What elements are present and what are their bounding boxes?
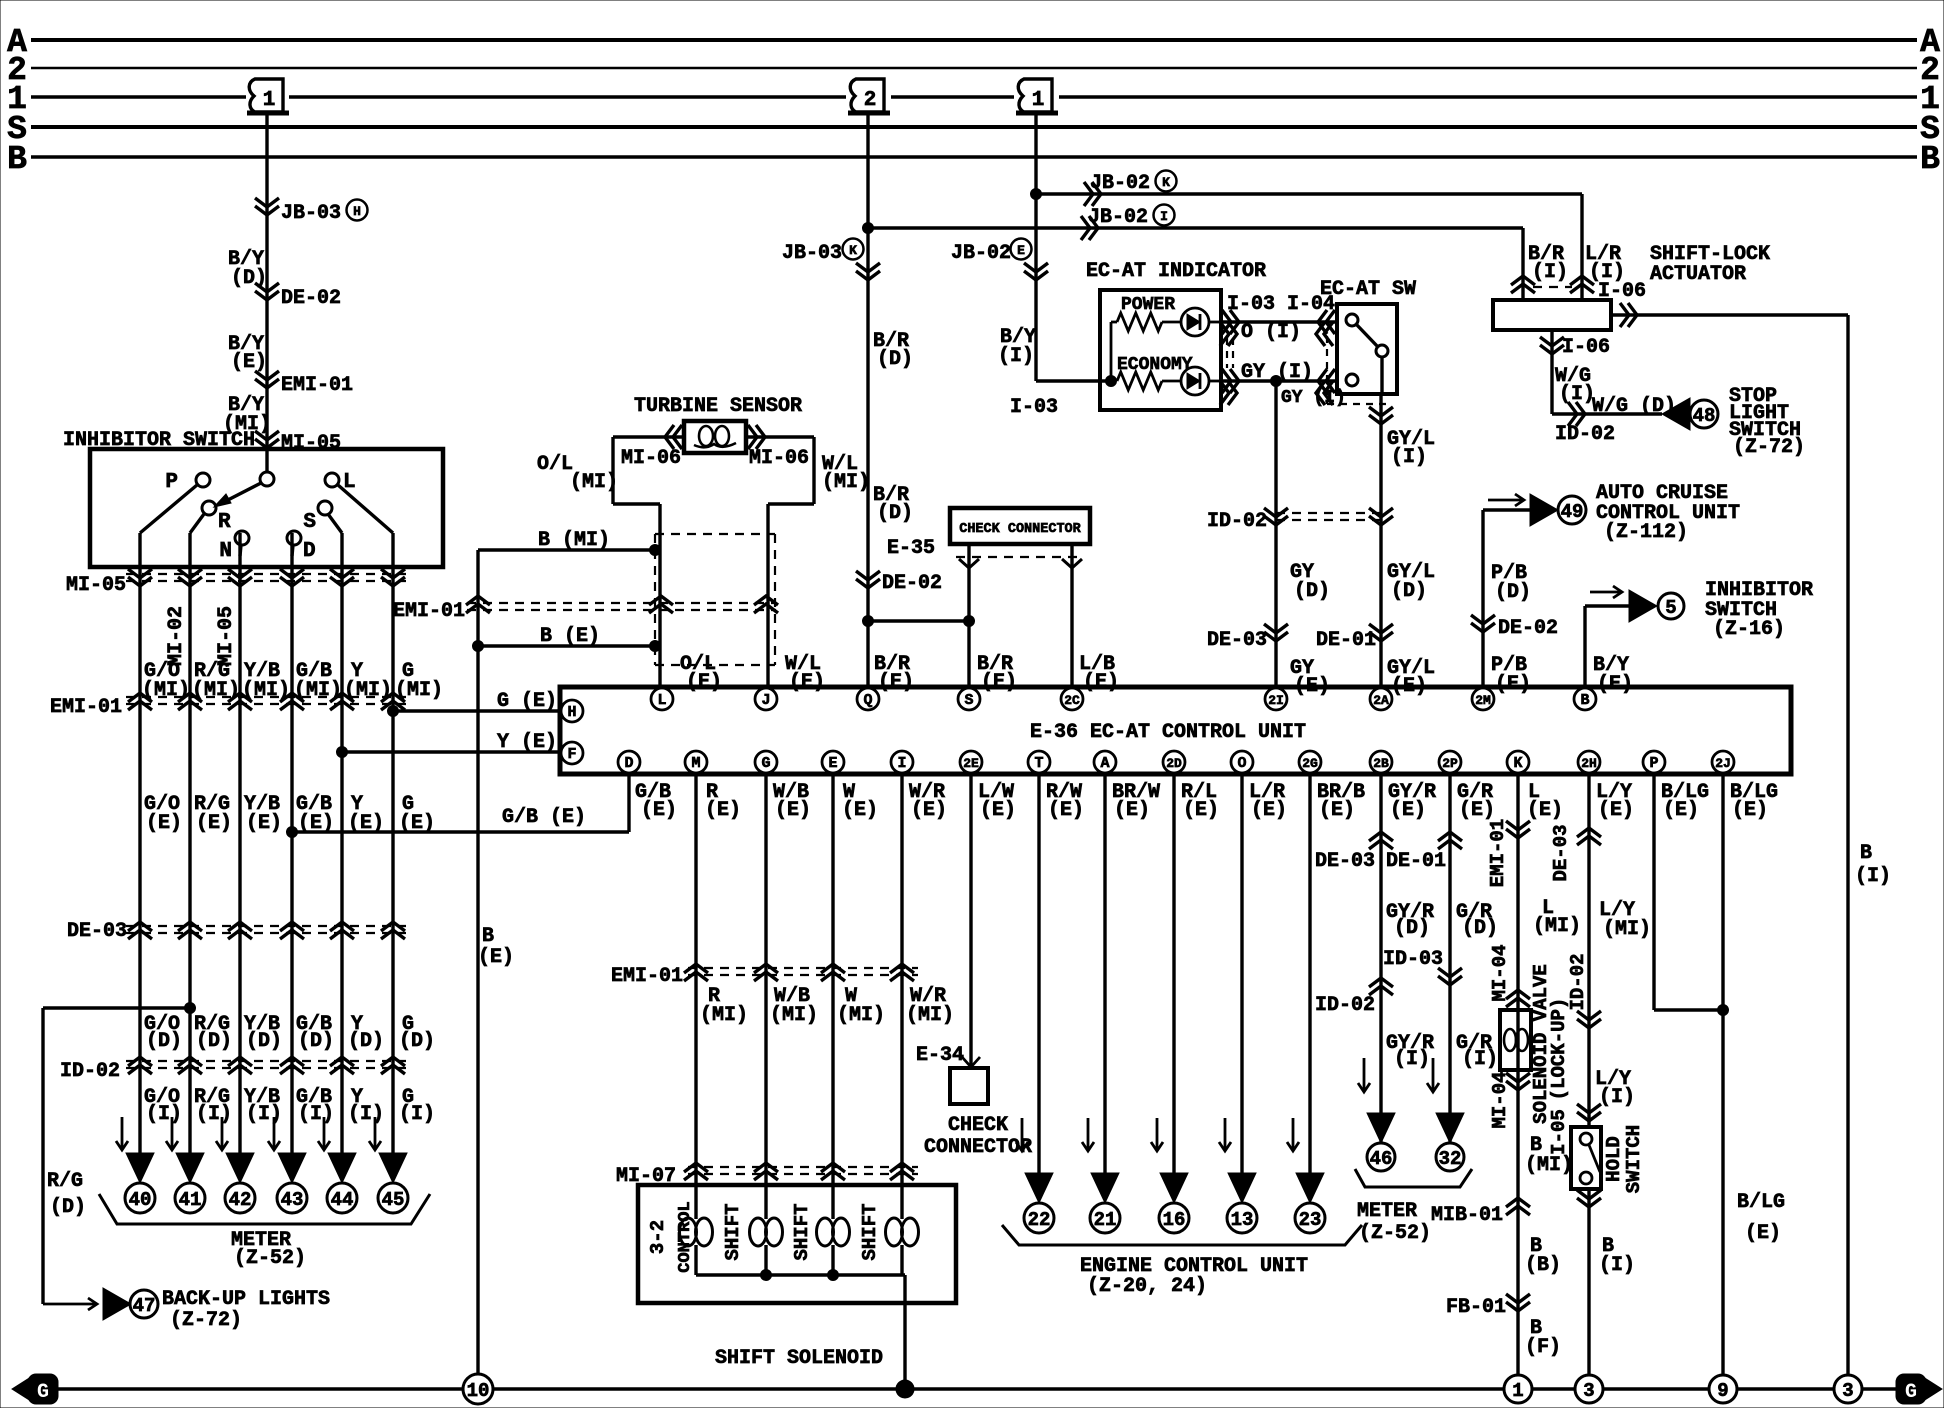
svg-text:(Z-72): (Z-72) — [170, 1309, 242, 1332]
svg-text:(E): (E) — [641, 799, 677, 822]
svg-text:L: L — [657, 692, 666, 709]
svg-text:JB-03: JB-03 — [782, 242, 842, 265]
svg-text:49: 49 — [1561, 501, 1584, 523]
svg-text:MI-04: MI-04 — [1489, 944, 1511, 1001]
svg-text:(D): (D) — [399, 1030, 435, 1053]
svg-text:(E): (E) — [1598, 799, 1634, 822]
svg-text:42: 42 — [229, 1189, 252, 1211]
svg-text:(E): (E) — [1319, 799, 1355, 822]
svg-text:(D): (D) — [877, 348, 913, 371]
svg-text:BACK-UP LIGHTS: BACK-UP LIGHTS — [162, 1288, 330, 1311]
svg-text:EC-AT INDICATOR: EC-AT INDICATOR — [1086, 260, 1266, 283]
svg-text:G: G — [761, 755, 770, 772]
svg-text:(E): (E) — [1732, 799, 1768, 822]
svg-text:48: 48 — [1693, 405, 1716, 427]
svg-text:(D): (D) — [1495, 581, 1531, 604]
svg-text:(E): (E) — [1663, 799, 1699, 822]
svg-text:2I: 2I — [1268, 693, 1284, 708]
svg-text:(B): (B) — [1525, 1254, 1561, 1277]
svg-text:2B: 2B — [1373, 756, 1389, 771]
svg-text:23: 23 — [1299, 1209, 1322, 1231]
svg-text:(E): (E) — [246, 812, 282, 835]
svg-text:41: 41 — [179, 1189, 202, 1211]
svg-text:(E): (E) — [1745, 1222, 1781, 1245]
svg-text:(I): (I) — [1599, 1086, 1635, 1109]
svg-text:(I): (I) — [998, 345, 1034, 368]
svg-text:JB-02: JB-02 — [1088, 206, 1148, 229]
svg-text:45: 45 — [382, 1189, 405, 1211]
svg-text:(I): (I) — [1391, 446, 1427, 469]
svg-text:D: D — [624, 755, 633, 772]
svg-text:44: 44 — [331, 1189, 354, 1211]
svg-text:(D): (D) — [298, 1030, 334, 1053]
svg-text:G/B (E): G/B (E) — [502, 806, 586, 829]
svg-text:(I): (I) — [1599, 1254, 1635, 1277]
svg-text:16: 16 — [1163, 1209, 1186, 1231]
svg-text:SWITCH: SWITCH — [1623, 1125, 1645, 1193]
svg-text:(MI): (MI) — [1525, 1154, 1573, 1177]
svg-text:1: 1 — [1512, 1380, 1523, 1402]
svg-text:B: B — [482, 925, 494, 948]
svg-text:(MI): (MI) — [700, 1004, 748, 1027]
svg-text:(E): (E) — [1459, 799, 1495, 822]
svg-text:E: E — [1017, 243, 1025, 258]
svg-text:(I): (I) — [298, 1103, 334, 1126]
svg-text:(I): (I) — [146, 1103, 182, 1126]
svg-text:S: S — [303, 511, 316, 534]
svg-text:MIB-01: MIB-01 — [1431, 1204, 1503, 1227]
svg-text:(E): (E) — [789, 671, 825, 694]
svg-text:E-35: E-35 — [887, 537, 935, 560]
svg-text:(D): (D) — [146, 1030, 182, 1053]
svg-text:B: B — [1580, 692, 1589, 709]
svg-text:I-03 I-04: I-03 I-04 — [1227, 293, 1335, 316]
svg-text:ID-03: ID-03 — [1383, 948, 1443, 971]
svg-text:(E): (E) — [1083, 671, 1119, 694]
svg-text:EMI-01: EMI-01 — [281, 374, 353, 397]
svg-text:SHIFT SOLENOID: SHIFT SOLENOID — [715, 1347, 883, 1370]
svg-text:(MI): (MI) — [906, 1004, 954, 1027]
svg-text:O/L: O/L — [537, 453, 573, 476]
svg-text:3: 3 — [1842, 1380, 1853, 1402]
svg-text:EMI-01: EMI-01 — [1487, 819, 1509, 887]
svg-text:(D): (D) — [50, 1196, 86, 1219]
svg-text:DE-02: DE-02 — [882, 572, 942, 595]
svg-text:I: I — [1160, 209, 1168, 224]
svg-text:(E): (E) — [1114, 799, 1150, 822]
svg-text:J: J — [761, 692, 770, 709]
svg-text:HOLD: HOLD — [1603, 1136, 1625, 1182]
svg-text:ECONOMY: ECONOMY — [1117, 355, 1193, 375]
svg-text:DE-02: DE-02 — [281, 287, 341, 310]
svg-text:EC-AT SW: EC-AT SW — [1320, 278, 1416, 301]
svg-text:(E): (E) — [1390, 799, 1426, 822]
svg-text:40: 40 — [129, 1189, 152, 1211]
svg-text:(Z-52): (Z-52) — [1359, 1222, 1431, 1245]
svg-text:DE-02: DE-02 — [1498, 617, 1558, 640]
svg-text:I-06: I-06 — [1562, 336, 1610, 359]
svg-text:H: H — [567, 704, 576, 721]
svg-text:ID-02: ID-02 — [1315, 994, 1375, 1017]
svg-text:(D): (D) — [1294, 580, 1330, 603]
svg-text:(LOCK-UP): (LOCK-UP) — [1548, 998, 1570, 1101]
svg-text:(I): (I) — [1855, 865, 1891, 888]
svg-text:47: 47 — [133, 1295, 156, 1317]
svg-text:(E): (E) — [878, 671, 914, 694]
svg-text:9: 9 — [1717, 1380, 1728, 1402]
svg-text:D: D — [303, 540, 316, 563]
svg-text:(E): (E) — [1527, 799, 1563, 822]
svg-text:M: M — [691, 755, 700, 772]
svg-text:(D): (D) — [348, 1030, 384, 1053]
svg-text:G (E): G (E) — [497, 690, 557, 713]
svg-text:E-34: E-34 — [916, 1044, 964, 1067]
svg-text:Q: Q — [863, 692, 872, 709]
svg-text:A: A — [1100, 755, 1109, 772]
svg-text:T: T — [1034, 755, 1043, 772]
svg-text:2D: 2D — [1166, 756, 1182, 771]
svg-text:1: 1 — [263, 89, 276, 112]
svg-text:JB-02: JB-02 — [1090, 172, 1150, 195]
svg-text:5: 5 — [1665, 597, 1676, 619]
svg-text:(MI): (MI) — [822, 471, 870, 494]
svg-text:13: 13 — [1231, 1209, 1254, 1231]
svg-text:46: 46 — [1370, 1148, 1393, 1170]
svg-text:3-2: 3-2 — [647, 1220, 669, 1254]
svg-text:I: I — [897, 755, 906, 772]
svg-text:2P: 2P — [1442, 756, 1458, 771]
svg-text:B (MI): B (MI) — [538, 529, 610, 552]
svg-text:B: B — [1860, 842, 1872, 865]
svg-text:21: 21 — [1094, 1209, 1117, 1231]
svg-text:POWER: POWER — [1121, 295, 1175, 315]
svg-text:(D): (D) — [1394, 917, 1430, 940]
svg-text:(E): (E) — [478, 946, 514, 969]
svg-text:(E): (E) — [842, 799, 878, 822]
svg-text:O: O — [1237, 755, 1246, 772]
svg-text:(Z-52): (Z-52) — [234, 1247, 306, 1270]
svg-text:(F): (F) — [1525, 1336, 1561, 1359]
svg-text:H: H — [353, 204, 361, 219]
svg-text:(MI): (MI) — [570, 471, 618, 494]
svg-text:DE-03: DE-03 — [1207, 629, 1267, 652]
svg-text:(I): (I) — [1462, 1048, 1498, 1071]
svg-text:MI-06: MI-06 — [749, 447, 809, 470]
svg-text:(E): (E) — [1183, 799, 1219, 822]
svg-text:(E): (E) — [231, 351, 267, 374]
svg-text:K: K — [1162, 175, 1170, 190]
svg-text:(D): (D) — [196, 1030, 232, 1053]
svg-text:(D): (D) — [1462, 917, 1498, 940]
svg-text:EMI-01: EMI-01 — [393, 600, 465, 623]
svg-text:B: B — [1920, 141, 1940, 178]
svg-text:DE-03: DE-03 — [67, 920, 127, 943]
svg-text:(E): (E) — [1251, 799, 1287, 822]
svg-text:CONTROL: CONTROL — [676, 1201, 695, 1272]
svg-text:I-05: I-05 — [1548, 1109, 1570, 1155]
svg-text:2: 2 — [864, 89, 877, 112]
svg-text:10: 10 — [467, 1380, 490, 1402]
svg-text:MI-05: MI-05 — [215, 606, 238, 666]
svg-text:B/LG: B/LG — [1737, 1191, 1785, 1214]
svg-text:JB-03: JB-03 — [281, 202, 341, 225]
svg-text:SHIFT: SHIFT — [722, 1203, 744, 1260]
svg-text:(MI): (MI) — [1533, 915, 1581, 938]
svg-text:B (E): B (E) — [540, 625, 600, 648]
svg-text:SHIFT: SHIFT — [791, 1203, 813, 1260]
svg-text:(I): (I) — [196, 1103, 232, 1126]
svg-text:2E: 2E — [963, 756, 979, 771]
svg-text:TURBINE SENSOR: TURBINE SENSOR — [634, 395, 802, 418]
svg-text:GY (I): GY (I) — [1281, 388, 1346, 408]
svg-text:2H: 2H — [1581, 756, 1597, 771]
svg-text:Y (E): Y (E) — [497, 731, 557, 754]
svg-text:E: E — [828, 755, 837, 772]
svg-text:EMI-01: EMI-01 — [611, 965, 683, 988]
svg-text:(I): (I) — [348, 1103, 384, 1126]
svg-text:(D): (D) — [1391, 580, 1427, 603]
svg-text:MI-02: MI-02 — [165, 606, 188, 666]
svg-text:METER: METER — [1357, 1200, 1417, 1223]
svg-text:G: G — [1905, 1381, 1917, 1404]
svg-text:2A: 2A — [1373, 693, 1389, 708]
svg-text:22: 22 — [1028, 1209, 1051, 1231]
svg-text:(Z-112): (Z-112) — [1604, 521, 1688, 544]
svg-text:DE-01: DE-01 — [1316, 629, 1376, 652]
svg-text:MI-05: MI-05 — [281, 432, 341, 455]
svg-text:ID-02: ID-02 — [1207, 510, 1267, 533]
svg-text:(I): (I) — [246, 1103, 282, 1126]
svg-text:EMI-01: EMI-01 — [50, 696, 122, 719]
svg-text:ID-02: ID-02 — [60, 1060, 120, 1083]
svg-text:FB-01: FB-01 — [1446, 1296, 1506, 1319]
svg-text:32: 32 — [1439, 1148, 1462, 1170]
svg-text:2G: 2G — [1302, 756, 1318, 771]
svg-text:1: 1 — [1032, 89, 1045, 112]
svg-text:(E): (E) — [980, 799, 1016, 822]
svg-text:DE-03: DE-03 — [1550, 824, 1572, 881]
svg-text:E-36 EC-AT CONTROL UNIT: E-36 EC-AT CONTROL UNIT — [1030, 721, 1306, 744]
svg-text:2J: 2J — [1715, 756, 1731, 771]
svg-text:MI-06: MI-06 — [621, 447, 681, 470]
svg-text:G: G — [37, 1381, 49, 1404]
svg-text:SHIFT: SHIFT — [859, 1203, 881, 1260]
svg-text:N: N — [219, 540, 232, 563]
svg-text:(Z-20, 24): (Z-20, 24) — [1087, 1275, 1207, 1298]
svg-text:P: P — [1649, 755, 1658, 772]
svg-text:O (I): O (I) — [1241, 321, 1301, 344]
svg-text:P: P — [165, 471, 178, 494]
svg-text:(E): (E) — [146, 812, 182, 835]
svg-text:(E): (E) — [196, 812, 232, 835]
svg-text:2C: 2C — [1064, 693, 1080, 708]
svg-text:(I): (I) — [399, 1103, 435, 1126]
svg-text:CHECK CONNECTOR: CHECK CONNECTOR — [959, 522, 1081, 537]
svg-text:(MI): (MI) — [1603, 918, 1651, 941]
svg-text:3: 3 — [1583, 1380, 1594, 1402]
svg-text:(I): (I) — [1394, 1048, 1430, 1071]
svg-text:(MI): (MI) — [770, 1004, 818, 1027]
svg-text:DE-03: DE-03 — [1315, 850, 1375, 873]
svg-text:DE-01: DE-01 — [1386, 850, 1446, 873]
svg-text:K: K — [1513, 755, 1522, 772]
svg-text:(E): (E) — [1048, 799, 1084, 822]
svg-text:(E): (E) — [705, 799, 741, 822]
svg-text:ID-02: ID-02 — [1567, 953, 1589, 1010]
svg-text:(E): (E) — [686, 671, 722, 694]
svg-text:2M: 2M — [1475, 693, 1491, 708]
svg-text:(Z-16): (Z-16) — [1713, 618, 1785, 641]
svg-text:CHECK: CHECK — [948, 1114, 1008, 1137]
svg-text:(D): (D) — [246, 1030, 282, 1053]
svg-text:(E): (E) — [981, 671, 1017, 694]
svg-text:(MI): (MI) — [837, 1004, 885, 1027]
svg-text:R/G: R/G — [47, 1170, 83, 1193]
svg-text:ID-02: ID-02 — [1555, 423, 1615, 446]
svg-text:MI-05: MI-05 — [66, 574, 126, 597]
svg-text:B: B — [7, 141, 27, 178]
svg-text:R: R — [218, 511, 231, 534]
svg-text:(D): (D) — [877, 502, 913, 525]
svg-text:43: 43 — [281, 1189, 304, 1211]
svg-text:MI-04: MI-04 — [1489, 1071, 1511, 1128]
svg-text:JB-02: JB-02 — [951, 242, 1011, 265]
svg-text:I-03: I-03 — [1010, 396, 1058, 419]
svg-text:(I): (I) — [1532, 261, 1568, 284]
svg-text:F: F — [567, 746, 576, 763]
svg-text:(E): (E) — [911, 799, 947, 822]
svg-text:K: K — [849, 243, 857, 258]
svg-text:ACTUATOR: ACTUATOR — [1650, 263, 1746, 286]
svg-text:(Z-72): (Z-72) — [1733, 436, 1805, 459]
svg-text:CONNECTOR: CONNECTOR — [924, 1136, 1032, 1159]
svg-text:S: S — [964, 692, 973, 709]
svg-text:(E): (E) — [775, 799, 811, 822]
